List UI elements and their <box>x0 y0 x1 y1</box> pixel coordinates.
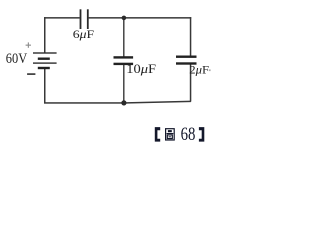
capacitor C2 10uF: bottom plate <box>114 63 134 65</box>
caption character tu (figure) outer box <box>166 129 175 140</box>
wire: left vertical stem (battery bottom to bottom rail) <box>44 68 46 104</box>
capacitor C1 6uF: left vertical plate <box>80 9 82 29</box>
node: top junction dot <box>122 16 127 21</box>
capacitor C1 6uF: right vertical plate <box>87 9 89 29</box>
wire: middle vertical lower (C2 bottom plate to bottom junction) <box>123 65 124 104</box>
svg-text:6μF: 6μF <box>73 27 95 41</box>
capacitor C3 2uF: bottom plate <box>176 62 197 64</box>
caption character tu inner top box <box>168 130 172 132</box>
battery B1 60V: plus terminal long plate <box>33 52 57 53</box>
faint speck after 2uF label <box>209 69 211 71</box>
wire: top rail left segment (battery corner to C1 left plate) <box>44 17 80 19</box>
caption left lenticular bracket <box>155 127 160 142</box>
battery minus sign <box>27 73 35 75</box>
capacitor C2 10uF: top plate <box>114 56 134 58</box>
node: bottom junction dot <box>121 100 126 105</box>
svg-text:68: 68 <box>181 124 196 145</box>
wire: right vertical lower (C3 bottom plate to bottom-right corner) <box>190 64 192 101</box>
battery B1: second long plate <box>33 62 57 63</box>
caption character tu bottom tick <box>169 136 171 137</box>
wire: top rail right segment (C1 right plate to top-right corner) <box>89 17 192 19</box>
wire: bottom rail left segment <box>44 102 125 104</box>
caption right lenticular bracket <box>199 127 204 142</box>
battery B1: first short thick plate <box>38 58 50 60</box>
caption character tu middle bar <box>167 133 174 134</box>
wire: middle vertical upper (top junction down to C2 top plate) <box>123 17 124 57</box>
wire: left vertical (top corner down to battery top plate) <box>44 17 46 53</box>
battery B1: second short thick plate <box>38 67 50 69</box>
wire: right vertical upper (top-right corner down to C3 top plate) <box>190 17 192 56</box>
svg-text:10μF: 10μF <box>126 61 156 76</box>
caption character tu inner bottom box <box>167 135 172 139</box>
battery plus sign <box>26 42 31 47</box>
wire: bottom rail right segment (slightly higher) <box>124 101 191 104</box>
capacitor C3 2uF: top plate <box>176 56 197 58</box>
svg-text:2μF: 2μF <box>189 63 209 77</box>
svg-text:60V: 60V <box>6 51 28 67</box>
